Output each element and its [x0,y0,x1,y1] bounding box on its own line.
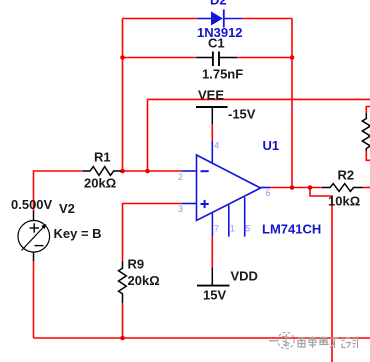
svg-text:LM741CH: LM741CH [262,222,321,237]
svg-text:1.75nF: 1.75nF [202,67,243,82]
wire: right vertical of feedback loop (x=292, y=18.5..187.5) [291,19,293,188]
svg-text:U1: U1 [263,138,280,153]
op-amp U1 [182,141,270,237]
svg-text:7: 7 [214,224,219,234]
wire: left vertical of top feedback loop (x=122.5, y=18.5..171) [122,19,124,172]
svg-text:Key = B: Key = B [54,226,102,241]
svg-text:R9: R9 [128,257,145,272]
svg-text:0.500V: 0.500V [11,197,53,212]
power symbol VEE [196,107,228,124]
svg-text:VDD: VDD [231,269,258,284]
svg-text:-15V: -15V [228,107,256,122]
svg-text:3: 3 [178,204,183,214]
svg-text:R1: R1 [94,150,111,165]
wire: top horizontal right segment from diode cathode [242,18,292,20]
wire: capacitor branch right [237,57,292,59]
svg-text:VEE: VEE [198,87,224,102]
svg-text:1: 1 [230,224,235,234]
wire: bottom rail [34,337,370,339]
junction dot at minus node / y99 branch [145,169,150,174]
svg-text:10kΩ: 10kΩ [328,194,360,209]
wire: top horizontal left segment to diode anode [123,18,198,20]
power symbol VDD [197,267,230,285]
wire: pin7 to VDD red segment [211,236,213,267]
resistor R1 [83,167,121,176]
junction dot at R1 right / top branch [120,169,125,174]
wire: R1 right junction to op-amp pin2 [123,170,182,172]
wire: V2 top to R1 left [34,171,84,211]
junction dot at capacitor right [290,55,295,60]
svg-text:20kΩ: 20kΩ [84,176,116,191]
diode D2 [198,9,242,27]
wire: op-amp output to R2 [270,187,322,189]
watermark text 硬事电子设计 [298,337,358,349]
svg-text:6: 6 [266,188,271,198]
wire: output branch down jog and long vertical to bottom edge [310,188,332,362]
resistor R2 [322,184,363,192]
wire: right resistor bottom stub red [366,151,370,160]
svg-text:5: 5 [245,224,250,234]
resistor R9 [119,261,127,303]
wire: VEE stem red segment [211,124,213,141]
svg-text:15V: 15V [203,288,226,303]
source V2 [18,211,50,261]
wire: vertical from minus node up to y99 line (x=147.5) [147,99,149,171]
junction dot at R9 bottom rail [120,336,125,341]
wire: right resistor top stub red [366,107,370,114]
wire: capacitor branch left [123,57,197,59]
svg-text:R2: R2 [338,168,355,183]
capacitor C1 [196,52,237,67]
junction dot at capacitor left [120,55,125,60]
junction dot at R2 branch [308,185,313,190]
junction dot at output node [290,185,295,190]
resistor R3 (right edge, partially cut) [362,113,370,151]
wire: plus input rail from corner to pin3 [123,204,182,261]
svg-text:D2: D2 [210,0,227,8]
svg-text:2: 2 [178,172,183,182]
watermark logo icon [269,332,294,348]
wire: V2 bottom down [33,261,35,338]
wire: R2 right lead to right edge [363,187,370,189]
wire: horizontal feedback line y=99.4 to right edge [148,98,370,100]
wire: R9 bottom to bottom rail [122,303,124,338]
svg-text:20kΩ: 20kΩ [128,273,160,288]
svg-text:4: 4 [214,141,219,151]
svg-text:C1: C1 [208,36,225,51]
svg-text:V2: V2 [59,201,75,216]
